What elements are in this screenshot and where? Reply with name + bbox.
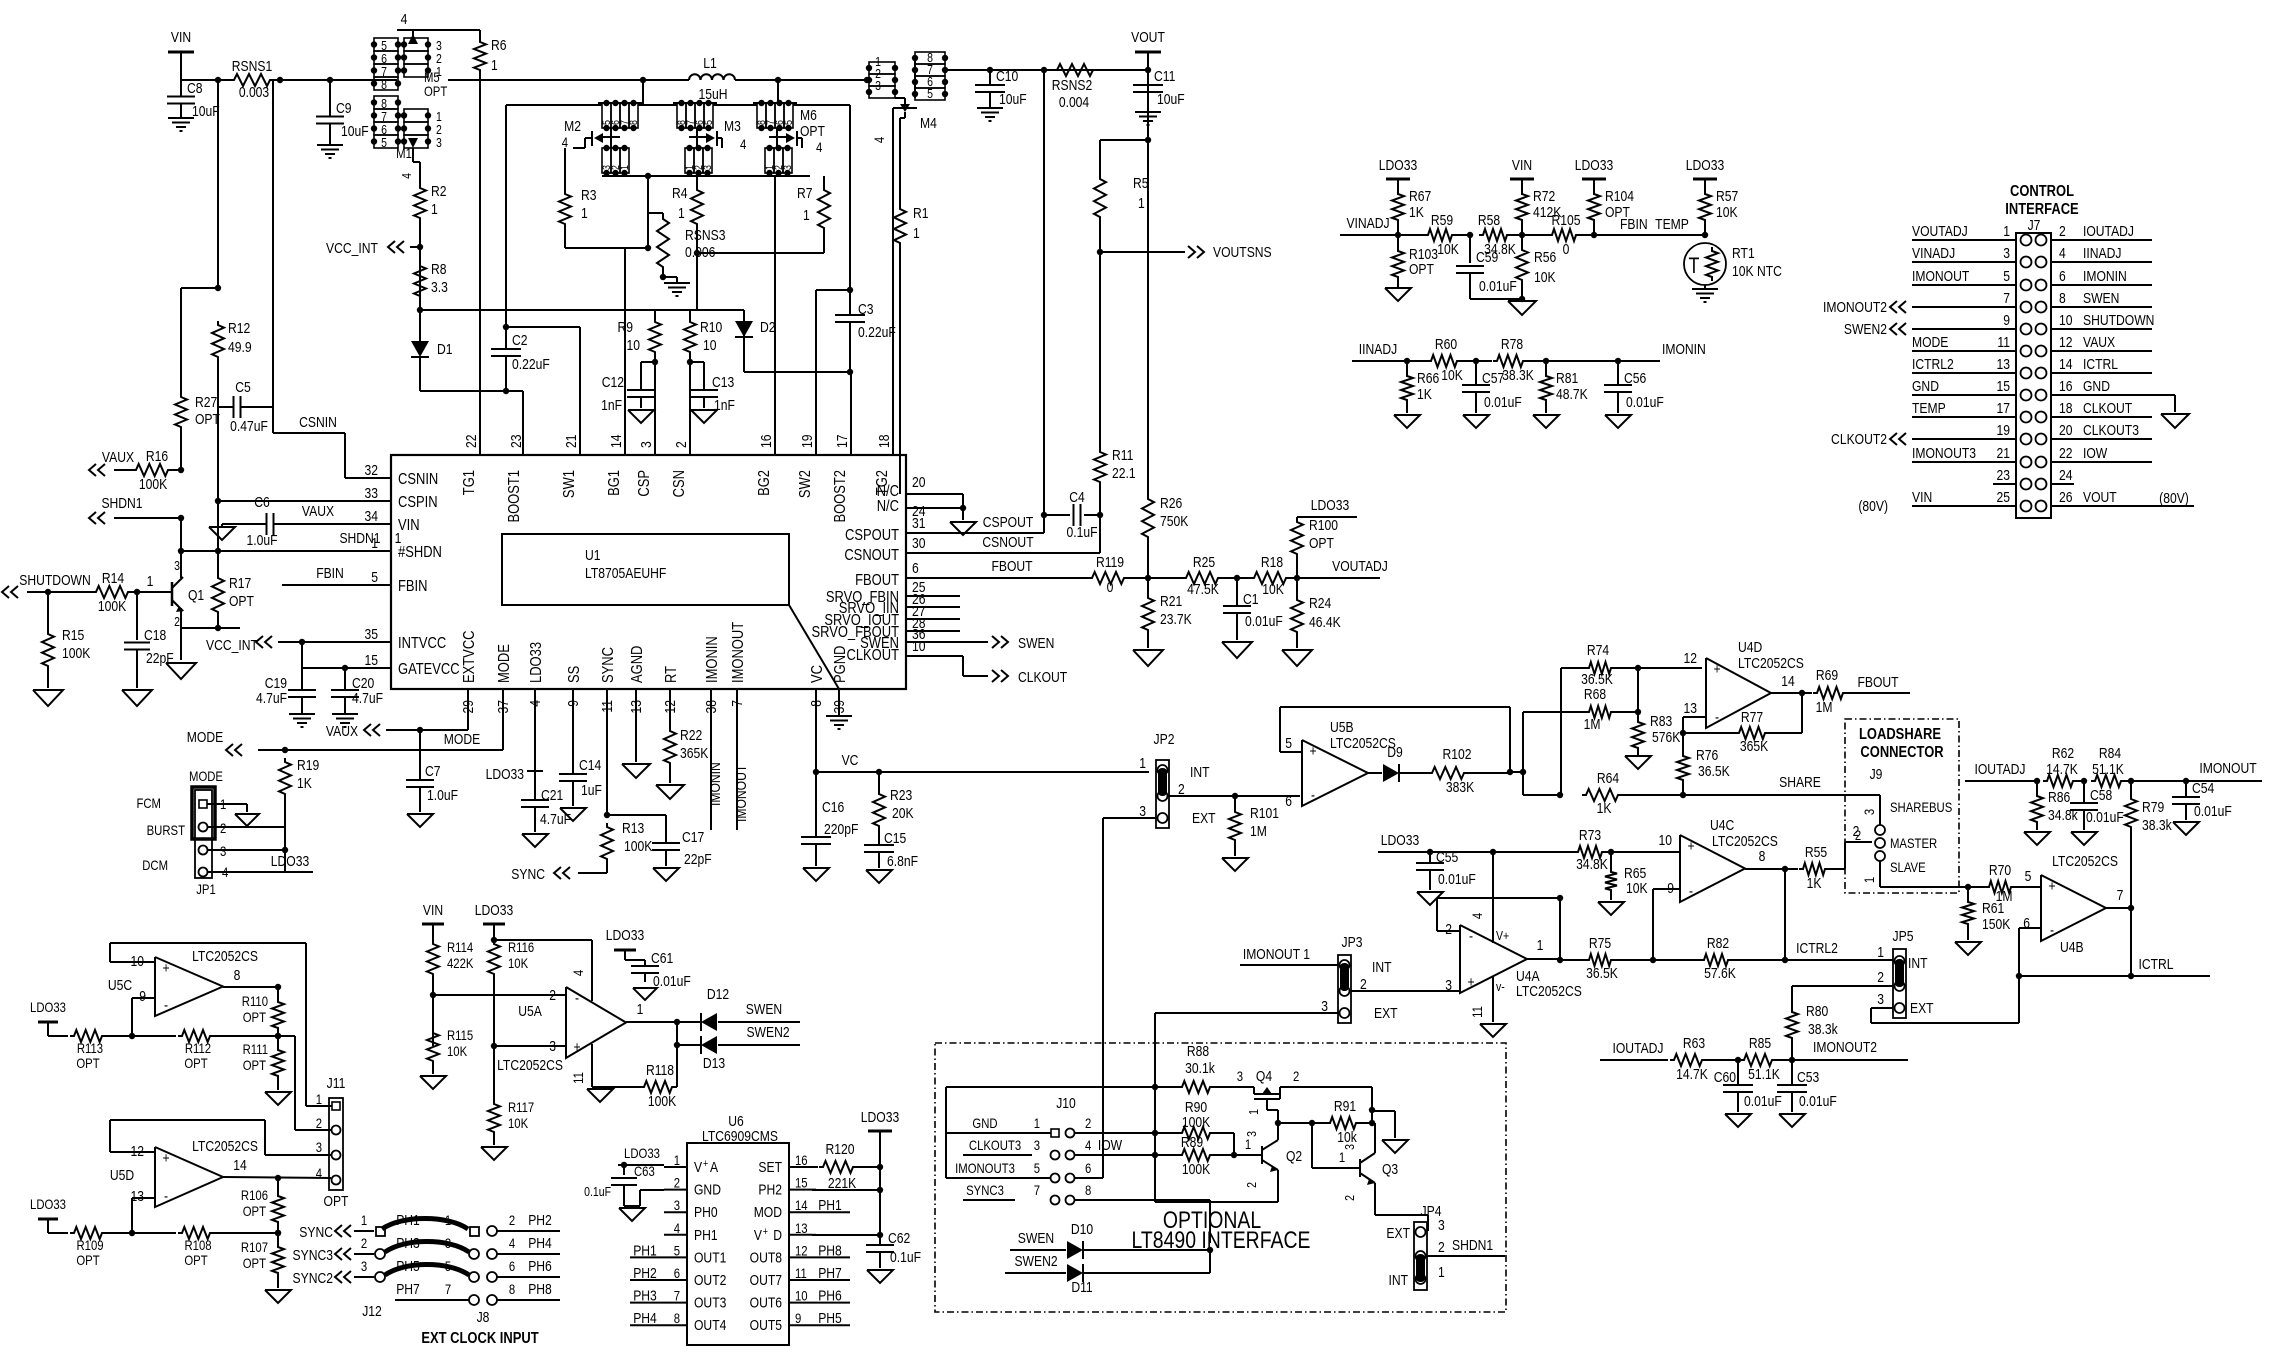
svg-text:T: T (1689, 254, 1700, 278)
svg-text:49.9: 49.9 (228, 339, 252, 355)
capacitor C54 (2172, 780, 2232, 820)
svg-text:PH6: PH6 (528, 1258, 552, 1274)
resistor RSNS2 (1052, 64, 1097, 110)
mosfet M4 (866, 50, 948, 455)
wire (945, 67, 993, 73)
svg-text:OUT2: OUT2 (694, 1272, 726, 1288)
net CLKOUT2 (1831, 431, 1906, 447)
svg-text:EXT: EXT (1386, 1225, 1410, 1241)
svg-text:LDO33: LDO33 (528, 642, 546, 683)
capacitor C12 (601, 362, 655, 413)
wire EXTVCC (386, 689, 468, 733)
svg-text:R119: R119 (1096, 554, 1124, 570)
svg-text:R4: R4 (672, 185, 688, 201)
svg-text:M1: M1 (396, 145, 412, 161)
ground (332, 714, 358, 727)
svg-text:221K: 221K (828, 1175, 856, 1191)
svg-text:IMONIN: IMONIN (2083, 268, 2127, 284)
svg-text:R19: R19 (297, 757, 319, 773)
resistor R79 (2125, 781, 2172, 841)
wire SYNC (604, 689, 610, 818)
ground (1605, 415, 1631, 428)
wire pin13 (1680, 717, 1706, 736)
capacitor C61 (625, 950, 691, 989)
svg-text:33: 33 (365, 485, 378, 501)
wire (420, 388, 523, 455)
transistor Q1 (172, 558, 204, 629)
svg-text:R16: R16 (146, 448, 168, 464)
resistor R19 (279, 757, 319, 851)
net LDO33 u6 (618, 1145, 664, 1168)
ground (2071, 832, 2097, 845)
svg-text:C8: C8 (187, 80, 203, 96)
svg-text:MODE: MODE (189, 768, 223, 784)
svg-text:10K NTC: 10K NTC (1732, 263, 1782, 279)
svg-text:U5C: U5C (108, 977, 132, 993)
svg-text:R17: R17 (229, 575, 251, 591)
svg-text:2: 2 (1438, 1239, 1445, 1255)
svg-text:C62: C62 (888, 1230, 910, 1246)
svg-text:MASTER: MASTER (1890, 835, 1937, 851)
svg-text:IMONOUT: IMONOUT (1912, 268, 1970, 284)
capacitor C16 (801, 772, 858, 866)
svg-text:3: 3 (436, 135, 442, 150)
svg-text:1: 1 (1139, 755, 1146, 771)
svg-text:5: 5 (2025, 868, 2032, 884)
svg-text:5: 5 (1034, 1160, 1040, 1176)
net SYNC j12 (299, 1212, 374, 1240)
wire (181, 616, 221, 631)
svg-text:2: 2 (509, 1212, 515, 1228)
ground (2173, 822, 2199, 835)
resistor R86 (2031, 781, 2078, 830)
resistor R104 (1588, 179, 1634, 235)
net TEMP (1650, 216, 1708, 238)
svg-text:VINADJ: VINADJ (1346, 215, 1389, 231)
wire ICTRL2 (1785, 940, 1893, 960)
wire rail out (990, 67, 1151, 73)
svg-text:SWEN: SWEN (2083, 290, 2119, 306)
svg-text:LTC6909CMS: LTC6909CMS (702, 1128, 778, 1144)
net SHDN1 label (339, 530, 401, 546)
svg-text:SYNC3: SYNC3 (966, 1182, 1004, 1198)
svg-text:U4D: U4D (1738, 639, 1762, 655)
ground (1417, 892, 1443, 905)
net LDO33 (268, 853, 313, 872)
capacitor C3 (835, 290, 896, 372)
wire out1 (626, 1001, 680, 1025)
wire fb U5C (110, 943, 306, 1106)
svg-text:10uF: 10uF (1157, 91, 1185, 107)
svg-text:0.01uF: 0.01uF (1799, 1093, 1837, 1109)
resistor R102 (1428, 746, 1510, 795)
wire VC (816, 752, 1149, 775)
wire (181, 288, 218, 393)
ground (522, 834, 548, 847)
ground (1282, 650, 1312, 666)
wire (642, 80, 644, 105)
wire rail top (448, 79, 689, 81)
svg-text:3: 3 (1861, 809, 1877, 815)
wire RT (669, 689, 671, 727)
connector J9 (1855, 799, 1952, 883)
svg-text:16: 16 (795, 1152, 808, 1168)
svg-text:VOUTADJ: VOUTADJ (1332, 558, 1388, 574)
svg-text:C17: C17 (682, 829, 704, 845)
pin 1 (147, 573, 154, 589)
svg-text:U4C: U4C (1710, 817, 1734, 833)
svg-text:20K: 20K (892, 805, 914, 821)
wire out1 (1527, 937, 1560, 959)
svg-text:10uF: 10uF (341, 123, 369, 139)
resistor R69 (1802, 667, 1910, 715)
svg-text:24: 24 (2059, 467, 2073, 483)
capacitor C57 (1462, 361, 1522, 413)
svg-text:OPT: OPT (229, 593, 255, 609)
svg-text:IOUTADJ: IOUTADJ (2083, 223, 2134, 239)
svg-text:LTC2052CS: LTC2052CS (1738, 655, 1804, 671)
svg-text:R24: R24 (1309, 595, 1332, 611)
svg-text:51.1K: 51.1K (1748, 1066, 1780, 1082)
capacitor C56 (1604, 361, 1664, 413)
wire fb U5D (110, 1120, 155, 1152)
svg-text:LTC2052CS: LTC2052CS (1712, 833, 1778, 849)
svg-text:51.1K: 51.1K (2092, 761, 2124, 777)
net IINADJ (1352, 341, 1428, 364)
svg-text:J11: J11 (327, 1075, 346, 1091)
svg-text:VC: VC (842, 752, 859, 768)
svg-text:R69: R69 (1816, 667, 1838, 683)
svg-text:EXT: EXT (1192, 810, 1216, 826)
svg-text:INTVCC: INTVCC (398, 635, 446, 653)
wire (1099, 252, 1101, 448)
svg-text:4: 4 (1085, 1137, 1091, 1153)
ground (265, 1092, 291, 1105)
wire bus (602, 175, 810, 177)
svg-text:AGND: AGND (629, 646, 647, 683)
ground (1222, 858, 1248, 871)
ground (1508, 301, 1536, 315)
svg-text:C5: C5 (235, 379, 251, 395)
ground (1533, 415, 1559, 428)
svg-text:OPT: OPT (76, 1252, 99, 1268)
capacitor C18 (124, 592, 174, 688)
capacitor C5 (218, 379, 273, 434)
svg-text:C11: C11 (1154, 68, 1175, 84)
resistor R59 (1424, 212, 1473, 257)
resistor R115 (427, 1027, 473, 1074)
net IOUTADJ (1600, 1040, 1668, 1060)
svg-text:4: 4 (399, 173, 414, 179)
ground (1394, 415, 1420, 428)
wire VC (813, 689, 819, 775)
svg-text:8: 8 (234, 967, 241, 983)
ground (1385, 288, 1411, 301)
svg-text:CSNOUT: CSNOUT (982, 534, 1034, 550)
svg-text:1: 1 (491, 57, 498, 73)
ground (1598, 902, 1624, 915)
svg-text:-: - (164, 1188, 168, 1204)
svg-text:C60: C60 (1714, 1069, 1737, 1085)
svg-text:2: 2 (1178, 781, 1185, 797)
resistor R10 (684, 310, 723, 455)
resistor R76 (1677, 733, 1730, 795)
svg-text:DCM: DCM (142, 857, 168, 873)
svg-text:LDO33: LDO33 (1381, 832, 1419, 848)
svg-text:47.5K: 47.5K (1187, 581, 1219, 597)
svg-text:12: 12 (1684, 650, 1697, 666)
svg-text:100K: 100K (624, 838, 652, 854)
svg-text:3: 3 (1321, 998, 1328, 1014)
svg-text:OPT: OPT (76, 1055, 99, 1071)
svg-text:1uF: 1uF (581, 782, 602, 798)
wire (2128, 841, 2134, 979)
svg-text:R102: R102 (1443, 746, 1472, 762)
svg-text:LT8705AEUHF: LT8705AEUHF (585, 565, 666, 581)
wire (497, 1235, 560, 1254)
wire (1147, 140, 1149, 495)
svg-text:C3: C3 (858, 301, 874, 317)
svg-text:R116: R116 (508, 939, 534, 955)
loadshare box (1845, 719, 1959, 893)
resistor R24 (1291, 578, 1341, 648)
wire rail (372, 79, 397, 81)
svg-text:TG1: TG1 (461, 470, 479, 495)
wire (180, 551, 182, 578)
svg-text:VC: VC (809, 665, 827, 683)
wire (1912, 505, 2016, 507)
svg-text:V: V (694, 1159, 703, 1175)
svg-text:1: 1 (2003, 223, 2010, 239)
svg-text:+: + (1687, 838, 1694, 854)
svg-text:LDO33: LDO33 (1575, 157, 1613, 173)
net SHUTDOWN (2, 572, 91, 598)
svg-text:LTC2052CS: LTC2052CS (2052, 853, 2118, 869)
ground (560, 808, 586, 821)
resistor R105 (1522, 212, 1597, 257)
svg-text:3: 3 (361, 1258, 367, 1274)
svg-text:38.3k: 38.3k (1808, 1021, 1838, 1037)
svg-text:BOOST2: BOOST2 (832, 470, 850, 523)
wire rail (420, 309, 744, 311)
svg-text:TEMP: TEMP (1912, 400, 1946, 416)
svg-text:23.7K: 23.7K (1160, 611, 1192, 627)
resistor R65 (1605, 852, 1648, 900)
svg-text:R89: R89 (1181, 1134, 1203, 1150)
jumper JP1 (136, 768, 228, 897)
svg-text:7: 7 (674, 1287, 680, 1303)
wire (419, 222, 421, 310)
ground (122, 690, 152, 706)
svg-text:R83: R83 (1650, 713, 1672, 729)
wire pin6 (2016, 928, 2041, 979)
svg-text:4: 4 (570, 970, 586, 976)
svg-text:OUT1: OUT1 (694, 1249, 726, 1265)
net LDO33 (861, 1109, 899, 1245)
svg-text:TEMP: TEMP (1655, 216, 1689, 232)
net LDO33 (1575, 157, 1613, 179)
wire (1561, 668, 1638, 795)
wire (1912, 416, 2016, 418)
svg-text:SLAVE: SLAVE (1890, 859, 1926, 875)
ground (622, 764, 650, 778)
resistor R73 (1574, 827, 1680, 872)
svg-text:19: 19 (1997, 422, 2010, 438)
wire (645, 173, 651, 248)
svg-text:2: 2 (2059, 223, 2066, 239)
svg-text:15uH: 15uH (699, 86, 728, 102)
resistor R109 (48, 1227, 135, 1268)
svg-text:R65: R65 (1624, 865, 1646, 881)
svg-text:10uF: 10uF (192, 103, 220, 119)
svg-text:10K: 10K (1437, 241, 1459, 257)
svg-text:2: 2 (1360, 976, 1367, 992)
wire (2051, 284, 2152, 286)
svg-text:10k: 10k (1337, 1129, 1357, 1145)
svg-text:0.01uF: 0.01uF (1438, 871, 1476, 887)
svg-text:J8: J8 (477, 1309, 490, 1325)
svg-text:57.6K: 57.6K (1704, 965, 1736, 981)
net VAUX (326, 723, 380, 739)
svg-text:1: 1 (371, 535, 378, 551)
svg-text:LTC2052CS: LTC2052CS (1516, 983, 1582, 999)
op-amp U5B (1285, 719, 1396, 809)
svg-text:6: 6 (1285, 793, 1292, 809)
svg-text:3: 3 (1034, 1137, 1040, 1153)
svg-text:1.0uF: 1.0uF (427, 787, 458, 803)
svg-text:VIN: VIN (398, 517, 420, 535)
svg-text:-: - (1469, 928, 1473, 944)
diode D9 (1368, 744, 1428, 782)
net LDO33 pin4 (486, 689, 543, 782)
wire (497, 1212, 560, 1231)
wire N/C (906, 494, 966, 520)
wire pin6 (1075, 1177, 1103, 1179)
svg-text:+: + (763, 1226, 768, 1238)
svg-text:10uF: 10uF (999, 91, 1027, 107)
svg-text:38.3k: 38.3k (2142, 817, 2172, 833)
svg-text:R63: R63 (1683, 1035, 1705, 1051)
svg-text:10K: 10K (508, 955, 529, 971)
svg-text:VOUT: VOUT (2083, 489, 2117, 505)
op-amp U5A (497, 987, 626, 1073)
svg-text:PH6: PH6 (818, 1287, 842, 1303)
connector J7 body (2016, 233, 2051, 518)
svg-text:EXT: EXT (1374, 1005, 1398, 1021)
resistor R26 (1142, 495, 1188, 581)
svg-text:PH3: PH3 (396, 1235, 420, 1251)
junction (864, 77, 870, 83)
svg-text:OUT3: OUT3 (694, 1294, 726, 1310)
svg-text:R12: R12 (228, 320, 250, 336)
svg-text:1: 1 (431, 201, 438, 217)
wire out7 (2106, 887, 2134, 911)
wire (1912, 328, 2016, 330)
svg-text:5: 5 (703, 120, 715, 125)
net LDO33 c61 (606, 927, 644, 950)
resistor R63 (1670, 1035, 1741, 1082)
svg-text:PH4: PH4 (528, 1235, 552, 1251)
svg-text:IOUTADJ: IOUTADJ (1975, 761, 2026, 777)
svg-text:LDO33: LDO33 (30, 999, 66, 1015)
resistor R58 (1478, 212, 1525, 257)
svg-text:SWEN: SWEN (1018, 1230, 1054, 1246)
svg-text:IMONIN: IMONIN (707, 762, 723, 806)
pin 10 (1659, 832, 1673, 848)
resistor R100 (1291, 517, 1338, 578)
svg-text:D11: D11 (1071, 1279, 1092, 1295)
op-amp U5D (110, 1138, 258, 1207)
wire JP5-3 (1871, 976, 2019, 1023)
svg-text:3: 3 (2003, 245, 2010, 261)
diode D2 (735, 319, 776, 337)
ground (407, 814, 433, 827)
svg-text:VIN: VIN (423, 902, 443, 918)
net SHDN1 (89, 495, 181, 524)
jumper shunt PH5 (385, 1258, 469, 1275)
ground (33, 690, 63, 706)
capacitor C59 (1456, 235, 1522, 299)
svg-text:PH1: PH1 (396, 1212, 420, 1228)
resistor R74 (1561, 642, 1702, 687)
mosfet M5 (371, 11, 480, 99)
svg-text:INT: INT (1190, 764, 1210, 780)
svg-text:EXTVCC: EXTVCC (461, 630, 479, 683)
resistor R83 (1632, 712, 1680, 756)
ground (166, 663, 196, 679)
svg-text:LDO33: LDO33 (30, 1196, 66, 1212)
svg-text:LTC2052CS: LTC2052CS (1330, 735, 1396, 751)
svg-text:L1: L1 (703, 55, 716, 71)
svg-text:+: + (162, 1150, 169, 1166)
jumper JP4 (1386, 1203, 1444, 1290)
svg-text:PH5: PH5 (396, 1258, 420, 1274)
resistor R82 (1653, 935, 1785, 981)
svg-text:OUT8: OUT8 (750, 1249, 782, 1265)
op-amp U4B (2041, 853, 2118, 955)
ground (628, 410, 654, 423)
svg-text:1: 1 (1138, 195, 1145, 211)
svg-text:IOW: IOW (1098, 1137, 1122, 1153)
wire (178, 515, 184, 554)
svg-text:LDO33: LDO33 (486, 766, 524, 782)
svg-text:C7: C7 (425, 763, 441, 779)
op-amp U6 box (687, 1143, 789, 1345)
svg-text:C63: C63 (634, 1163, 655, 1179)
svg-text:30: 30 (912, 535, 926, 551)
svg-text:16: 16 (758, 435, 774, 448)
svg-text:2: 2 (674, 1174, 680, 1190)
svg-text:R112: R112 (185, 1040, 211, 1056)
svg-text:150K: 150K (1982, 916, 2010, 932)
net VAUX (89, 449, 134, 476)
svg-text:14: 14 (233, 1157, 247, 1173)
svg-text:IMONIN: IMONIN (1662, 341, 1706, 357)
capacitor C19 (256, 642, 316, 714)
wire VIN pin (274, 503, 391, 524)
wire (274, 79, 372, 81)
svg-text:R57: R57 (1716, 188, 1738, 204)
svg-text:2: 2 (220, 820, 226, 836)
ground (587, 1087, 613, 1102)
ground (1135, 112, 1161, 125)
ground (691, 410, 717, 423)
svg-text:BG1: BG1 (606, 470, 624, 496)
svg-text:v-: v- (1496, 979, 1505, 994)
wire (306, 1105, 332, 1107)
svg-text:JP5: JP5 (1893, 928, 1914, 944)
svg-text:1: 1 (361, 1212, 367, 1228)
